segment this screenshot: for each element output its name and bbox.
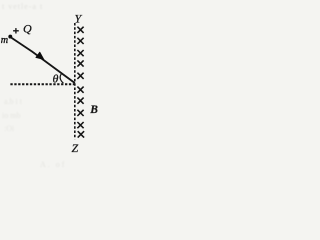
dashed horizontal reference line	[10, 83, 74, 85]
svg-text:A. of: A. of	[40, 160, 66, 169]
bleed-through smudge mid-left	[2, 97, 23, 133]
svg-text:Z: Z	[72, 141, 79, 155]
field cross X5	[77, 73, 83, 79]
arrowhead on trajectory	[36, 52, 44, 59]
field cross X9	[77, 122, 83, 128]
field cross X4	[77, 60, 83, 66]
svg-text:io mb: io mb	[2, 111, 20, 120]
field cross X7	[77, 98, 83, 104]
bleed-through smudge top	[2, 2, 43, 11]
field cross X2	[77, 38, 83, 44]
field cross X10	[78, 131, 84, 137]
svg-text:Q: Q	[23, 22, 32, 36]
angle arc at junction	[60, 73, 63, 83]
svg-text:B: B	[89, 104, 98, 116]
boundary line Y-Z (dotted vertical)	[74, 23, 76, 139]
bleed-through smudge bottom	[40, 160, 66, 169]
velocity wire: incoming trajectory line	[10, 37, 75, 83]
field cross X8	[77, 110, 83, 116]
field cross X1	[77, 27, 83, 33]
svg-text::Oi: :Oi	[4, 124, 15, 133]
field cross X6	[77, 87, 83, 93]
svg-text:t vetle-a t: t vetle-a t	[2, 2, 43, 11]
field cross X3	[77, 50, 83, 56]
page background	[0, 0, 106, 171]
svg-text:a.b i t: a.b i t	[4, 97, 23, 106]
svg-text:m: m	[1, 35, 8, 46]
charge label +Q : plus sign	[13, 28, 19, 33]
particle (charge +Q) dot	[8, 35, 12, 39]
